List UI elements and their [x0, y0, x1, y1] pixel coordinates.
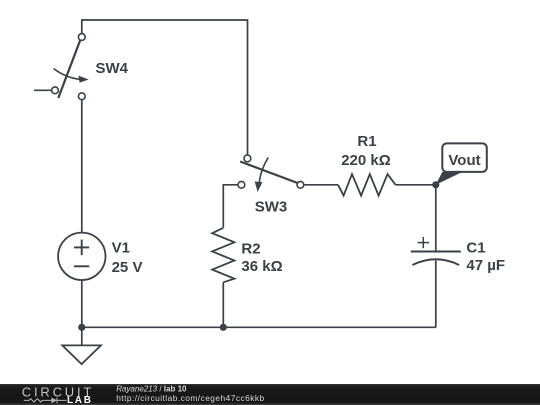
capacitor C1 polarity plus [418, 237, 429, 248]
svg-text:LAB: LAB [67, 395, 93, 405]
switch SW3 [238, 155, 304, 192]
svg-text:SW4: SW4 [96, 60, 129, 77]
svg-text:R2: R2 [241, 240, 260, 257]
svg-text:220 kΩ: 220 kΩ [341, 152, 391, 169]
wire: SW4 bottom throw to V1 [81, 100, 83, 233]
wire: node to C1 [435, 185, 437, 252]
svg-text:R1: R1 [357, 133, 376, 150]
wire: SW3 right throw to R1 [304, 184, 338, 186]
wire: top net SW4 to SW3 [82, 20, 248, 155]
voltage source V1 [58, 233, 105, 280]
junction node at R2/bus [220, 324, 227, 331]
wire: SW4 left stub [34, 89, 52, 91]
svg-text:36 kΩ: 36 kΩ [241, 258, 282, 275]
node Vout junction [432, 181, 439, 188]
svg-text:http://circuitlab.com/cegeh47c: http://circuitlab.com/cegeh47cc6kkb [116, 393, 264, 403]
capacitor C1 [411, 252, 461, 266]
resistor R2 [212, 228, 234, 282]
wire: bottom bus [82, 326, 436, 328]
flag Vout pointer [436, 172, 463, 185]
footer bar [0, 384, 540, 405]
svg-text:SW3: SW3 [255, 198, 288, 215]
ground [62, 345, 101, 364]
switch SW4 [52, 34, 89, 100]
flag Vout box [442, 143, 487, 172]
wire: ground stem [81, 327, 83, 345]
wire: R1 to Vout node [396, 184, 436, 186]
svg-text:47 µF: 47 µF [466, 257, 505, 274]
wire: SW3 left throw to R2 [223, 185, 238, 228]
wire: V1 to bus [81, 280, 83, 327]
resistor R1 [338, 174, 396, 196]
svg-text:C1: C1 [466, 240, 485, 257]
svg-text:25 V: 25 V [112, 259, 143, 276]
junction node at V1/ground [78, 324, 85, 331]
wire: R2 to bus [222, 282, 224, 327]
wire: C1 to bus [435, 261, 437, 328]
svg-text:V1: V1 [112, 240, 130, 257]
svg-text:Vout: Vout [448, 152, 480, 169]
footer logo squiggle [24, 398, 67, 404]
